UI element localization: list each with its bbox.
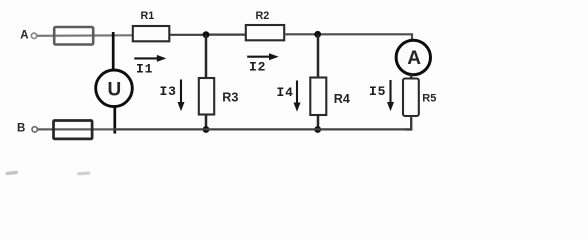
wire R2 to ammeter corner: [284, 34, 412, 41]
label R4: [334, 92, 350, 106]
label I5: [369, 84, 386, 99]
arrow I1: [134, 55, 166, 62]
svg-text:I5: I5: [369, 84, 386, 99]
arrow I2: [247, 53, 279, 60]
svg-text:R3: R3: [222, 91, 238, 105]
label I3: [160, 84, 177, 99]
wire node R3 to R2: [206, 33, 246, 35]
label I1: [136, 61, 153, 76]
fuse F2 on input B: [54, 121, 93, 139]
voltage source branch wire top: [112, 32, 115, 71]
label R2: [256, 10, 270, 22]
svg-text:I3: I3: [160, 84, 177, 99]
node A label: [20, 30, 28, 42]
svg-text:I4: I4: [277, 85, 294, 100]
wire node to R4 top: [317, 34, 320, 78]
label I2: [249, 60, 266, 75]
label R1: [141, 10, 155, 22]
svg-text:R5: R5: [422, 92, 436, 104]
arrow I5: [387, 80, 394, 111]
svg-text:B: B: [17, 123, 25, 135]
bottom rail wire: [113, 128, 406, 130]
junction node top R4: [314, 31, 321, 38]
wire node to R3 top: [205, 35, 208, 79]
fuse F1 on input A: [54, 27, 93, 45]
ammeter A: [396, 40, 430, 74]
smudge mark right: [77, 171, 91, 175]
svg-text:I1: I1: [136, 61, 153, 76]
resistor R2: [246, 25, 284, 40]
junction node bottom R4: [314, 126, 321, 133]
svg-text:R1: R1: [141, 10, 155, 22]
terminal B circle: [32, 127, 37, 132]
wire R4 bottom to rail: [317, 115, 320, 130]
label R5: [422, 92, 436, 104]
arrow I3: [178, 80, 185, 112]
wire A terminal to R1: [37, 34, 133, 37]
voltage source U: [96, 70, 133, 107]
wire B terminal to fuse: [37, 128, 113, 130]
svg-text:I2: I2: [249, 60, 266, 75]
wire R3 bottom to rail: [205, 114, 208, 130]
svg-text:A: A: [407, 48, 421, 69]
node B label: [17, 123, 25, 135]
wire R5 bottom to rail corner: [405, 116, 411, 129]
junction node top R3: [203, 31, 210, 38]
arrow I4: [294, 81, 301, 112]
svg-text:U: U: [108, 79, 122, 100]
label R3: [222, 91, 238, 105]
voltage source branch wire bottom: [113, 107, 116, 134]
resistor R1: [133, 26, 170, 41]
svg-text:R2: R2: [256, 10, 270, 22]
label I4: [277, 85, 294, 100]
wire ammeter to R5 top: [410, 75, 412, 80]
wire R1 to node R3: [170, 34, 207, 36]
resistor R5: [403, 79, 419, 117]
svg-text:A: A: [20, 30, 28, 42]
resistor R3: [199, 78, 214, 115]
terminal A circle: [31, 33, 36, 38]
smudge mark left: [5, 171, 18, 176]
svg-text:R4: R4: [334, 92, 350, 106]
junction node bottom R3: [203, 126, 210, 133]
resistor R4: [310, 78, 326, 116]
